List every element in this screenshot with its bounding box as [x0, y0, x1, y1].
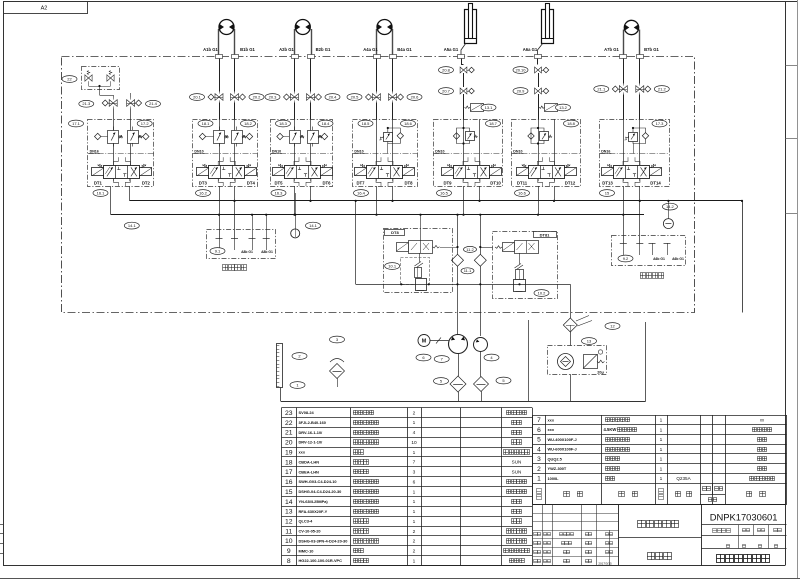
svg-text:DT3: DT3 [199, 180, 208, 185]
svg-text:2: 2 [537, 466, 541, 473]
svg-text:DRV-12-1-10/: DRV-12-1-10/ [299, 440, 324, 445]
svg-text:DT11: DT11 [517, 180, 528, 185]
svg-text:1: 1 [413, 450, 416, 456]
svg-text:16.2: 16.2 [199, 190, 208, 195]
svg-text:20: 20 [285, 440, 293, 447]
svg-text:1: 1 [660, 447, 663, 453]
svg-text:A5a G1: A5a G1 [444, 47, 459, 52]
svg-text:1: 1 [660, 466, 663, 472]
svg-text:2: 2 [413, 549, 416, 555]
svg-text:A4a G1: A4a G1 [363, 47, 378, 52]
svg-text:YWZ-300T: YWZ-300T [548, 466, 567, 471]
svg-text:DT9: DT9 [443, 180, 452, 185]
svg-text:A7b G1: A7b G1 [604, 47, 619, 52]
svg-text:5: 5 [537, 437, 541, 444]
svg-text:HG22-100-100-01R-VPC: HG22-100-100-01R-VPC [299, 558, 343, 563]
svg-text:M: M [422, 339, 427, 345]
svg-text:11.2: 11.2 [466, 247, 474, 252]
svg-text:DN16: DN16 [601, 149, 610, 153]
svg-text:1: 1 [660, 476, 663, 482]
svg-text:10.2: 10.2 [538, 290, 547, 295]
svg-text:1: 1 [660, 437, 663, 443]
svg-text:20.1: 20.1 [193, 94, 202, 99]
svg-text:1: 1 [413, 489, 416, 495]
svg-text:2: 2 [413, 539, 416, 545]
svg-text:DT10: DT10 [490, 180, 501, 185]
svg-text:DT6: DT6 [322, 180, 331, 185]
svg-text:1: 1 [660, 457, 663, 463]
svg-text:2: 2 [413, 410, 416, 416]
svg-text:Q235A: Q235A [676, 476, 691, 481]
svg-text:21.2: 21.2 [658, 86, 667, 91]
svg-text:3: 3 [537, 456, 541, 463]
svg-text:DSHG-03-3PN-4-D24-20-30: DSHG-03-3PN-4-D24-20-30 [299, 538, 348, 543]
svg-text:B2b G1: B2b G1 [316, 47, 331, 52]
svg-text:19: 19 [285, 449, 293, 456]
svg-text:18.8: 18.8 [567, 121, 576, 126]
svg-text:23: 23 [285, 410, 293, 417]
svg-text:xxx: xxx [548, 427, 555, 432]
svg-text:13.2: 13.2 [559, 105, 568, 110]
svg-text:A8b G1: A8b G1 [261, 250, 273, 254]
svg-text:13.1: 13.1 [485, 105, 494, 110]
svg-text:SUN: SUN [512, 460, 522, 465]
svg-text:17.2: 17.2 [141, 121, 150, 126]
svg-text:4.5KW: 4.5KW [604, 427, 617, 432]
svg-text:20.3: 20.3 [269, 94, 278, 99]
svg-text:DN16: DN16 [90, 149, 99, 153]
svg-text:21.4: 21.4 [149, 101, 158, 106]
svg-text:4: 4 [413, 430, 416, 436]
svg-text:17.1: 17.1 [72, 121, 81, 126]
svg-text:21.1: 21.1 [597, 86, 606, 91]
svg-text:DT14: DT14 [650, 180, 661, 185]
svg-text:CV-10-05-20: CV-10-05-20 [299, 529, 321, 534]
svg-text:21: 21 [285, 430, 293, 437]
svg-text:DT12: DT12 [565, 180, 576, 185]
svg-text:20.4: 20.4 [329, 94, 338, 99]
svg-text:2: 2 [413, 529, 416, 535]
svg-text:11.1: 11.1 [464, 268, 472, 273]
svg-text:20.2: 20.2 [253, 94, 262, 99]
svg-text:18.4: 18.4 [322, 121, 331, 126]
svg-text:DT81: DT81 [540, 232, 551, 237]
svg-text:DNPK17030601: DNPK17030601 [710, 511, 778, 522]
svg-text:18.3: 18.3 [279, 121, 288, 126]
svg-text:MMC-10: MMC-10 [299, 548, 314, 553]
svg-text:DT4: DT4 [247, 180, 256, 185]
svg-text:9.1: 9.1 [215, 248, 221, 253]
svg-text:DRV-16-1-10/: DRV-16-1-10/ [299, 430, 324, 435]
svg-text:B7b G1: B7b G1 [644, 47, 659, 52]
svg-text:A2b G1: A2b G1 [279, 47, 294, 52]
svg-text:DN10: DN10 [435, 149, 444, 153]
svg-text:17.3: 17.3 [656, 121, 665, 126]
svg-text:1: 1 [413, 558, 416, 564]
svg-text:16.5: 16.5 [440, 190, 449, 195]
svg-text:A6b G1: A6b G1 [653, 257, 665, 261]
svg-text:12: 12 [285, 519, 293, 526]
svg-text:3: 3 [413, 470, 416, 476]
svg-text:7: 7 [413, 460, 416, 466]
svg-text:20μ: 20μ [597, 371, 604, 375]
svg-text:20.6: 20.6 [411, 94, 420, 99]
svg-text:18.6: 18.6 [404, 121, 413, 126]
svg-text:17: 17 [285, 469, 293, 476]
svg-text:RFA-630X20F-Y: RFA-630X20F-Y [299, 509, 328, 514]
svg-text:6: 6 [413, 479, 416, 485]
svg-text:1: 1 [537, 476, 541, 483]
svg-text:QUQ2.5: QUQ2.5 [548, 456, 563, 461]
svg-text:14.2: 14.2 [666, 204, 675, 209]
svg-text:16.6: 16.6 [518, 190, 527, 195]
svg-text:1: 1 [413, 420, 416, 426]
svg-text:DT13: DT13 [602, 180, 613, 185]
svg-text:22: 22 [285, 420, 293, 427]
svg-text:CBDA-LHN: CBDA-LHN [299, 460, 320, 465]
svg-text:1: 1 [660, 427, 663, 433]
svg-text:20.9: 20.9 [517, 88, 526, 93]
svg-text:DN10: DN10 [354, 149, 363, 153]
svg-text:WU-600X100F-J: WU-600X100F-J [548, 447, 577, 452]
svg-text:20.5: 20.5 [351, 94, 360, 99]
svg-text:18.1: 18.1 [202, 121, 211, 126]
svg-text:4: 4 [537, 446, 541, 453]
svg-text:16.3: 16.3 [275, 190, 284, 195]
svg-text:DT7: DT7 [356, 180, 365, 185]
svg-text:CBEA-LHN: CBEA-LHN [299, 469, 320, 474]
svg-text:13: 13 [285, 509, 293, 516]
svg-text:22: 22 [67, 76, 72, 81]
svg-text:18: 18 [285, 459, 293, 466]
svg-text:DN10: DN10 [272, 149, 281, 153]
svg-text:A8b G1: A8b G1 [241, 250, 253, 254]
svg-text:3FJL2-B40-160: 3FJL2-B40-160 [299, 420, 326, 425]
svg-text:SWH-G03-C4-D24-10: SWH-G03-C4-D24-10 [299, 479, 337, 484]
svg-text:xxx: xxx [548, 418, 555, 423]
svg-text:15: 15 [605, 190, 610, 195]
svg-text:10: 10 [285, 538, 293, 545]
svg-text:16: 16 [285, 479, 293, 486]
svg-text:WU-400X100F-J: WU-400X100F-J [548, 437, 577, 442]
svg-text:14.1: 14.1 [128, 223, 137, 228]
svg-text:20.10: 20.10 [515, 67, 526, 72]
svg-text:12: 12 [610, 323, 615, 328]
svg-text:DN10: DN10 [194, 149, 203, 153]
svg-text:DSHG-04-C4-D24-20-30: DSHG-04-C4-D24-20-30 [299, 489, 342, 494]
svg-text:21.3: 21.3 [82, 101, 91, 106]
svg-text:18.2: 18.2 [244, 121, 253, 126]
svg-text:B1b G1: B1b G1 [240, 47, 255, 52]
svg-text:6: 6 [537, 427, 541, 434]
svg-text:DN10: DN10 [513, 149, 522, 153]
svg-text:DT2: DT2 [142, 180, 151, 185]
svg-text:1: 1 [660, 418, 663, 424]
svg-text:DT1: DT1 [94, 180, 103, 185]
svg-text:xxx: xxx [299, 450, 306, 455]
svg-text:14: 14 [285, 499, 293, 506]
svg-text:11: 11 [285, 528, 292, 535]
svg-text:DT8: DT8 [391, 230, 399, 235]
svg-text:9.2: 9.2 [623, 256, 629, 261]
svg-text:13: 13 [587, 338, 592, 343]
svg-text:SUN: SUN [512, 470, 522, 475]
svg-text:A6b G1: A6b G1 [672, 257, 684, 261]
svg-text:A6a G1: A6a G1 [523, 47, 538, 52]
svg-text:YN-63III-25MPa): YN-63III-25MPa) [299, 499, 329, 504]
svg-text:DT5: DT5 [274, 180, 283, 185]
svg-text:QLC3-4: QLC3-4 [299, 519, 314, 524]
svg-text:A2: A2 [41, 5, 48, 11]
svg-text:18.7: 18.7 [489, 121, 498, 126]
svg-text:14.1: 14.1 [309, 223, 318, 228]
svg-text:2017/3/15: 2017/3/15 [598, 561, 612, 565]
svg-text:7: 7 [537, 417, 541, 424]
svg-text:18.5: 18.5 [362, 121, 371, 126]
svg-text:15: 15 [285, 489, 293, 496]
svg-text:DT8: DT8 [404, 180, 413, 185]
svg-text:16.1: 16.1 [97, 190, 106, 195]
svg-text:1: 1 [413, 509, 416, 515]
svg-text:1: 1 [413, 519, 416, 525]
svg-text:1: 1 [413, 499, 416, 505]
svg-text:20.8: 20.8 [442, 67, 451, 72]
svg-text:20.7: 20.7 [442, 88, 451, 93]
svg-text:10: 10 [411, 440, 417, 446]
svg-text:B4a G1: B4a G1 [397, 47, 412, 52]
svg-text:16.4: 16.4 [357, 190, 366, 195]
svg-text:8: 8 [287, 558, 291, 565]
svg-text:10.1: 10.1 [388, 263, 397, 268]
svg-text:1000L: 1000L [548, 476, 560, 481]
svg-text:9: 9 [287, 548, 291, 555]
svg-text:SV08-24: SV08-24 [299, 410, 315, 415]
svg-text:A1b G1: A1b G1 [203, 47, 218, 52]
